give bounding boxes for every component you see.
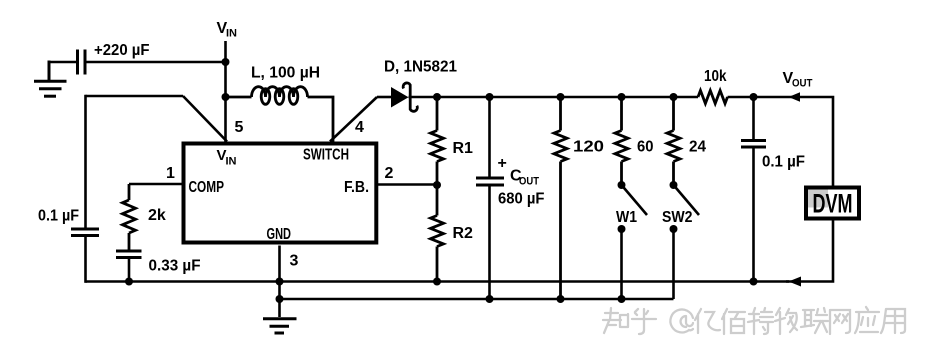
- svg-text:+: +: [498, 155, 507, 172]
- svg-text:+220 µF: +220 µF: [94, 42, 150, 59]
- svg-text:D, 1N5821: D, 1N5821: [384, 59, 457, 76]
- svg-text:SWITCH: SWITCH: [303, 147, 349, 164]
- watermark zhihu text: [603, 307, 905, 334]
- switch W1: [618, 181, 648, 233]
- svg-text:R2: R2: [453, 225, 474, 242]
- svg-text:10k: 10k: [704, 68, 727, 85]
- capacitor 0.33uF: [116, 251, 142, 283]
- node junction 120 ohm: [557, 93, 565, 101]
- svg-text:F.B.: F.B.: [344, 179, 369, 196]
- svg-text:60: 60: [637, 139, 654, 156]
- svg-text:0.1 µF: 0.1 µF: [762, 154, 805, 171]
- node junction 0.33uF to ground rail: [125, 278, 133, 286]
- svg-text:2k: 2k: [148, 207, 166, 224]
- svg-text:COMP: COMP: [189, 179, 225, 196]
- capacitor +220uF: [49, 50, 226, 75]
- wire top rail right: [728, 97, 834, 186]
- node F.B. junction: [433, 181, 441, 189]
- svg-text:SW2: SW2: [662, 209, 693, 226]
- node VIN label: [217, 20, 238, 40]
- wire GND pin 3: [278, 246, 281, 318]
- node junction GND pin to ground rail: [276, 278, 284, 286]
- svg-text:3: 3: [290, 253, 299, 270]
- wire VIN vertical: [224, 41, 227, 142]
- node junction R2 to ground rail: [433, 278, 441, 286]
- diode D 1N5821: [391, 83, 417, 111]
- svg-text:5: 5: [235, 119, 244, 136]
- svg-text:120: 120: [573, 139, 604, 156]
- label COUT: [510, 168, 539, 188]
- resistor R2: [431, 185, 444, 283]
- node VIN junction (input cap): [222, 58, 230, 66]
- wire DVM bottom: [786, 221, 833, 282]
- svg-text:1: 1: [166, 165, 175, 182]
- wire switch pin 4 diagonal: [330, 97, 377, 142]
- node junction COUT: [486, 93, 494, 101]
- svg-text:IN: IN: [226, 28, 237, 40]
- inductor L 100uH: [226, 87, 334, 142]
- wire to diode: [377, 96, 391, 99]
- capacitor 0.1uF (left): [71, 229, 99, 283]
- svg-text:4: 4: [355, 119, 364, 136]
- capacitor COUT: [476, 97, 504, 299]
- capacitor 0.1uF (right): [741, 97, 766, 283]
- wire W1 to ground rail 2: [620, 229, 623, 299]
- resistor 120: [554, 97, 567, 299]
- resistor R1: [431, 97, 444, 185]
- node junction COUT to rail 2: [486, 295, 494, 303]
- svg-text:IN: IN: [226, 156, 237, 168]
- resistor 60: [615, 97, 628, 185]
- switch SW2: [670, 181, 700, 233]
- node junction W1 to rail 2: [618, 295, 626, 303]
- node VIN junction dot (inductor): [222, 93, 230, 101]
- DVM meter box: [806, 188, 859, 219]
- node junction ground rail 2 left: [276, 295, 284, 303]
- svg-text:0.33 µF: 0.33 µF: [149, 258, 201, 275]
- wire COMP pin 1: [129, 183, 183, 186]
- resistor 24: [667, 97, 680, 185]
- wire F.B. pin 2: [378, 183, 437, 186]
- svg-text:GND: GND: [267, 226, 292, 243]
- resistor 10k: [698, 91, 728, 104]
- wire ground rail 1: [86, 280, 790, 283]
- node junction 120 ohm to rail 2: [557, 295, 565, 303]
- wire left bypass loop: [86, 95, 228, 228]
- svg-text:L, 100 µH: L, 100 µH: [251, 65, 320, 82]
- wire output top rail: [409, 96, 699, 99]
- node VOUT arrow: [789, 92, 801, 102]
- svg-text:W1: W1: [616, 209, 637, 226]
- node junction 24 ohm: [670, 93, 678, 101]
- resistor 2k: [123, 184, 136, 250]
- label VOUT: [783, 70, 813, 90]
- node junction R1 / diode: [433, 93, 441, 101]
- svg-text:R1: R1: [453, 140, 474, 157]
- node junction 0.1uF to ground rail: [750, 278, 758, 286]
- wire SW2 to ground rail 2: [672, 229, 675, 299]
- wire ground rail 2: [280, 298, 674, 301]
- op-amp U1 regulator box: [184, 144, 377, 243]
- node junction 60 ohm: [618, 93, 626, 101]
- svg-text:680 µF: 680 µF: [498, 191, 545, 208]
- svg-text:24: 24: [689, 139, 706, 156]
- ground (input, top-left): [34, 61, 67, 97]
- svg-text:OUT: OUT: [792, 78, 813, 90]
- node junction 10k / 0.1uF: [750, 93, 758, 101]
- svg-text:OUT: OUT: [519, 176, 539, 188]
- pin VIN label (inside): [217, 147, 237, 168]
- arrow ground sense: [789, 277, 802, 287]
- svg-text:0.1 µF: 0.1 µF: [38, 208, 79, 225]
- svg-text:DVM: DVM: [813, 189, 853, 219]
- svg-text:2: 2: [385, 165, 394, 182]
- ground (main, bottom): [263, 319, 297, 333]
